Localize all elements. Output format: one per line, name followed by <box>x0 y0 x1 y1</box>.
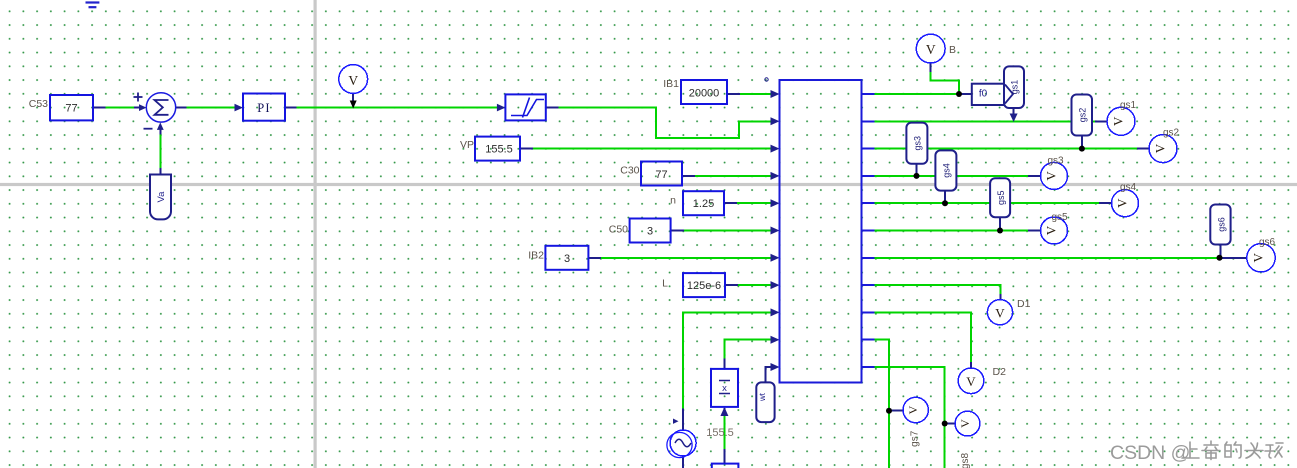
svg-text:D1: D1 <box>1017 298 1031 310</box>
PI controller <box>243 94 285 121</box>
stub V meter 1 to wire <box>352 93 354 102</box>
svg-text:3: 3 <box>564 253 570 265</box>
signal tag Va <box>150 175 171 220</box>
stub gs3 tag down to node <box>916 164 918 176</box>
arrow block input 2 <box>771 117 780 125</box>
svg-text:V: V <box>1044 171 1059 181</box>
constant box IB1 value 20000 <box>681 80 727 104</box>
AC source phase arrow <box>673 419 679 424</box>
stub PI box output <box>285 107 297 109</box>
stub reciprocal block top <box>723 359 725 369</box>
svg-text:C53: C53 <box>29 98 48 110</box>
AC source V1 <box>670 430 696 456</box>
signal tag wt <box>756 382 774 422</box>
arrow V meter 1 onto wire (black) <box>350 101 357 109</box>
minus sign <box>144 128 153 130</box>
svg-text:gs1: gs1 <box>1120 100 1137 111</box>
svg-text:gs8: gs8 <box>960 453 971 468</box>
summer U2 <box>146 93 175 122</box>
wire PI to limiter <box>297 107 498 109</box>
svg-text:gs4: gs4 <box>1120 182 1137 193</box>
plus sign <box>134 93 153 129</box>
svg-text:155.5: 155.5 <box>706 427 734 439</box>
wire IB2 box to block input 7 <box>601 257 772 259</box>
stub V meter B <box>930 63 932 72</box>
wire L box to block input 8 <box>738 284 772 286</box>
svg-text:V: V <box>958 419 972 428</box>
V meter gs8 <box>955 411 980 436</box>
constant box C50 value 3 <box>630 219 671 243</box>
svg-text:V: V <box>966 374 976 389</box>
V meter gs2 <box>1149 135 1177 163</box>
stub AC source bottom <box>682 456 684 468</box>
stub gs4 meter lead <box>1099 202 1112 204</box>
wire block output 11 down to gs8 node <box>875 367 945 468</box>
svg-text:V: V <box>1044 225 1059 235</box>
svg-text:gs5: gs5 <box>1051 212 1068 223</box>
constant box VP value 155.5 <box>475 137 520 161</box>
node gs7 <box>886 408 892 414</box>
signal tag gs3 <box>906 123 927 164</box>
svg-text:n: n <box>670 195 676 207</box>
ground <box>86 3 100 8</box>
arrow into limiter <box>497 104 506 112</box>
stub gs1 tag down <box>1013 108 1015 115</box>
stub bottom box <box>723 449 725 464</box>
stub node to meter gs7 <box>889 410 903 412</box>
node f0 <box>956 91 962 97</box>
svg-text:V: V <box>1111 116 1126 126</box>
node gs3 <box>914 173 920 179</box>
stub node to f0 box <box>959 93 972 95</box>
arrow block input 3 <box>771 145 780 153</box>
watermark hanzi di <box>1202 441 1220 460</box>
module output stubs <box>862 94 875 367</box>
stub gs3 meter lead <box>1028 175 1041 177</box>
stub gs6 tag down to node <box>1220 245 1222 258</box>
node gs6 <box>1217 255 1223 261</box>
V meter gs7 <box>903 397 928 422</box>
svg-text:C50: C50 <box>609 224 628 236</box>
V meter gs6 <box>1247 244 1275 272</box>
f0 box <box>972 84 1005 105</box>
stub C53 box output <box>93 107 106 109</box>
V meter D2 <box>958 368 984 394</box>
window divider horizontal <box>0 183 1297 186</box>
arrow gs1 tag onto wire <box>1010 114 1018 123</box>
V meter gs1 <box>1107 107 1135 135</box>
svg-text:1.25: 1.25 <box>693 198 714 210</box>
svg-text:Va: Va <box>156 191 167 203</box>
svg-text:V: V <box>1115 198 1130 208</box>
constant box C30 value 77 <box>641 162 682 186</box>
svg-text:gs3: gs3 <box>912 136 922 151</box>
wire reciprocal block to block input 10 <box>724 340 772 359</box>
svg-text:77: 77 <box>655 169 667 181</box>
svg-text:gs1: gs1 <box>1010 80 1020 95</box>
wire block output 6 to meter gs5 <box>875 230 1029 232</box>
svg-text:x: x <box>722 383 727 394</box>
stub limiter output <box>546 107 559 109</box>
constant box C53 value 77 <box>50 95 93 120</box>
signal tag gs6 <box>1210 205 1230 245</box>
svg-text:IB1: IB1 <box>663 78 679 90</box>
arrow up into reciprocal block <box>720 407 728 416</box>
arrow block input 10 <box>771 336 780 344</box>
stub AC source top <box>682 409 684 431</box>
wire block output 5 to meter gs4 <box>875 202 1100 204</box>
arrow into PI <box>235 104 244 112</box>
svg-text:20000: 20000 <box>689 88 720 100</box>
signal tag gs5 <box>990 178 1010 217</box>
stub into summer left <box>134 107 142 109</box>
degree mark near block corner <box>765 78 768 81</box>
arrow into summer left <box>139 104 147 111</box>
svg-text:155.5: 155.5 <box>485 144 513 156</box>
svg-text:gs3: gs3 <box>1047 156 1064 167</box>
watermark hanzi nv <box>1245 443 1263 458</box>
window divider vertical <box>314 0 317 468</box>
arrow block input 6 <box>771 227 780 235</box>
watermark hanzi shang <box>1182 442 1199 458</box>
wire block output 1 to f0 node <box>875 93 960 95</box>
arrow block input 8 <box>771 281 780 289</box>
V meter D1 <box>987 300 1012 325</box>
wire C50 box to block input 6 <box>684 230 772 232</box>
wire below reciprocal block <box>723 415 725 449</box>
wire IB1 box to block input 1 <box>740 93 772 95</box>
limiter U3 <box>505 94 545 120</box>
watermark hanzi hai <box>1265 443 1283 458</box>
wire block output 3 to meter gs2 <box>875 148 1138 150</box>
svg-text:C30: C30 <box>620 165 639 177</box>
svg-text:77: 77 <box>65 103 77 115</box>
node gs5 <box>997 228 1003 234</box>
svg-text:V: V <box>1153 143 1168 153</box>
stub gs5 tag down to node <box>999 217 1001 230</box>
bottom box (partial) <box>712 464 739 468</box>
wire C30 box to block input 4 <box>695 175 772 177</box>
wire block output 7 to gs6 node <box>875 257 1220 259</box>
arrow up into summer <box>157 122 164 129</box>
wire C53 box to summer <box>106 107 135 109</box>
stub IB1 box output <box>727 93 740 95</box>
constant box L value 125e-6 <box>683 273 725 297</box>
stub node to meter gs6 <box>1220 257 1247 259</box>
module block U1 <box>780 80 862 383</box>
wire limiter to block input 2 (jog) <box>558 108 772 138</box>
svg-text:V: V <box>906 405 920 414</box>
arrow block input 7 <box>771 254 780 262</box>
wire block output 9 to meter D2 <box>875 312 972 362</box>
svg-text:IB2: IB2 <box>528 250 544 262</box>
svg-text:gs4: gs4 <box>941 163 951 178</box>
svg-text:V: V <box>995 306 1005 321</box>
stub D1 drop <box>1000 294 1002 300</box>
arrow block input 5 <box>771 199 780 207</box>
stub summer right <box>176 107 187 109</box>
wire n box to block input 5 <box>737 202 772 204</box>
node gs2 <box>1079 146 1085 152</box>
wire V meter B down to node <box>931 72 959 94</box>
stub gs5 meter lead <box>1028 230 1041 232</box>
wire VP box to block input 3 <box>533 148 772 150</box>
arrow block input 11 <box>771 363 780 371</box>
wire block output 4 to meter gs3 <box>875 175 1029 177</box>
node gs8 <box>942 421 948 427</box>
stub gs2 meter lead <box>1137 148 1149 150</box>
stub summer bottom <box>159 127 161 134</box>
signal tag gs1 <box>1004 66 1024 108</box>
svg-text:B: B <box>949 44 956 56</box>
svg-text:L: L <box>662 278 668 290</box>
constant box n value 1.25 <box>683 191 724 215</box>
node gs4 <box>942 200 948 206</box>
V meter B <box>916 34 945 63</box>
svg-text:gs2: gs2 <box>1163 128 1180 139</box>
svg-text:125e-6: 125e-6 <box>687 280 721 292</box>
arrow block input 4 <box>771 172 780 180</box>
stub L box output <box>725 284 738 286</box>
svg-text:V: V <box>1251 252 1266 262</box>
svg-text:wt: wt <box>758 392 767 402</box>
wire wt tag to block input 11 <box>766 367 773 382</box>
signal tag gs2 <box>1072 95 1093 136</box>
svg-text:V: V <box>926 42 936 57</box>
stub VP box output <box>520 148 533 150</box>
svg-text:gs7: gs7 <box>910 430 921 447</box>
stub node to meter gs8 <box>945 423 956 425</box>
stub gs2 tag down to node <box>1081 136 1083 149</box>
constant box IB2 value 3 <box>545 246 588 270</box>
arrow block input 1 <box>771 90 780 98</box>
wire summer to PI <box>187 107 236 109</box>
svg-text:gs5: gs5 <box>996 190 1006 205</box>
V meter 1 <box>339 65 368 94</box>
arrow block input 9 <box>771 308 780 316</box>
stub reciprocal block bottom <box>723 408 725 415</box>
watermark hanzi de <box>1225 442 1241 458</box>
V meter gs4 <box>1112 190 1139 217</box>
svg-text:PI: PI <box>257 101 271 115</box>
reciprocal block 1/x <box>711 369 738 407</box>
wire AC source to block input 9 <box>683 312 772 408</box>
svg-text:gs6: gs6 <box>1259 237 1276 248</box>
stub IB2 box output <box>588 257 601 259</box>
svg-text:D2: D2 <box>993 366 1007 378</box>
svg-text:3: 3 <box>647 226 653 238</box>
svg-text:CSDN @: CSDN @ <box>1110 442 1190 464</box>
stub D2 drop <box>970 362 972 368</box>
svg-text:VP: VP <box>460 139 474 151</box>
wire block output 8 to meter D1 <box>875 285 1001 294</box>
wire block output 2 to meter gs1 <box>875 120 1096 122</box>
V meter gs5 <box>1041 217 1068 244</box>
svg-text:f0: f0 <box>979 89 988 100</box>
wire summer down to Va tag <box>159 134 161 168</box>
V meter gs3 <box>1041 162 1068 189</box>
stub gs1 meter lead <box>1095 120 1107 122</box>
svg-text:V: V <box>348 73 358 88</box>
signal tag gs4 <box>935 150 956 190</box>
wire block output 10 down to gs7 node <box>875 340 890 468</box>
stub n box output <box>724 202 737 204</box>
stub C50 box output <box>671 230 684 232</box>
svg-text:gs6: gs6 <box>1216 217 1226 232</box>
stub Va tag top <box>159 168 161 175</box>
svg-text:gs2: gs2 <box>1078 108 1088 123</box>
stub gs4 tag down to node <box>944 190 946 203</box>
stub C30 box output <box>682 175 695 177</box>
